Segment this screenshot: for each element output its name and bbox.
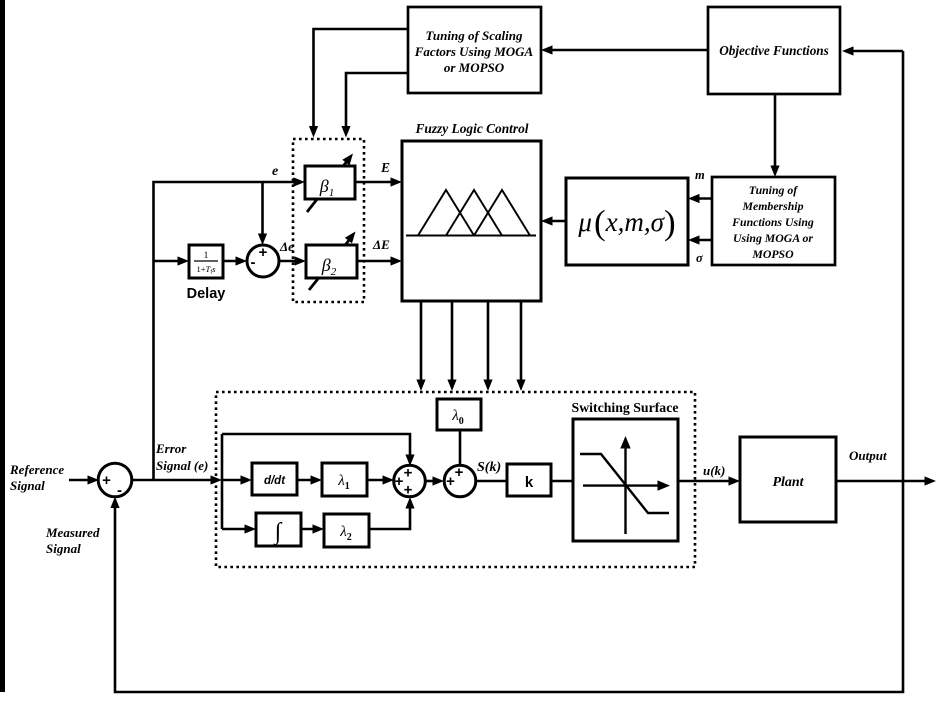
block: beta1 scaling gain [305,166,355,199]
wire: delay to delta summer [223,256,247,265]
summing junction: reference minus measured [98,463,132,499]
svg-text:Signal: Signal [46,541,81,556]
svg-text:Signal: Signal [10,478,45,493]
svg-text:Output: Output [849,448,887,463]
wire: controller input junction vertical [221,434,224,529]
block: integrator [256,513,301,546]
wire: reference signal input [69,475,99,484]
svg-text:+: + [395,473,404,490]
wire: k to switching surface [551,480,573,483]
wire: lambda0 into summer B [459,430,462,466]
svg-text:Error: Error [155,441,187,456]
svg-text:Measured: Measured [45,525,100,540]
svg-text:Signal (e): Signal (e) [156,458,208,473]
summing junction: sliding surface summer [394,465,426,499]
wire: scaling factor output 1 to beta1 [309,29,408,138]
wire: mu block to fuzzy logic control [541,216,566,225]
wire: e drop to delta summer [258,182,267,245]
block: delay 1/(1+Tfs) [189,245,223,278]
wire: proportional path to summer top [222,434,415,466]
svg-text:1+Tfs: 1+Tfs [196,264,216,276]
wire: delta-e to beta2 [279,256,306,265]
svg-text:+: + [404,482,413,499]
dotted box: scaling factors beta group [293,139,364,302]
svg-text:m: m [695,168,705,182]
block: Tuning of Scaling Factors Using MOGA or MOPSO [408,7,541,93]
block: lambda0 gain [437,399,481,430]
svg-text:Functions Using: Functions Using [731,215,814,229]
svg-text:S(k): S(k) [477,460,501,475]
wire: integrator to lambda2 [301,524,324,533]
block: lambda2 gain [324,514,369,547]
wire: m parameter into mu block [688,194,712,203]
svg-text:1: 1 [204,251,209,261]
wire: delta-E from beta2 to fuzzy [357,256,402,265]
svg-text:Tuning of Scaling: Tuning of Scaling [425,28,523,43]
dotted box: sliding mode controller [216,392,695,567]
adjust arrow on beta2 [309,232,356,291]
svg-text:Plant: Plant [772,475,804,490]
svg-text:+: + [404,465,413,482]
svg-text:E: E [380,160,390,175]
wire: E from beta1 to fuzzy [355,177,402,186]
svg-text:+: + [102,472,111,489]
wire: fuzzy output 4 into sliding controller [516,301,525,391]
wire: error signal into controller [131,475,252,484]
wire: summer A to summer B [425,476,444,485]
svg-text:ΔE: ΔE [372,237,390,252]
wire: output feedback vertical right side and bottom return [110,51,903,692]
wire: lambda2 to summer bottom [369,497,415,529]
svg-text:+: + [259,244,268,261]
block: Plant [740,437,836,522]
wire: feedback into objective functions [842,46,903,55]
wire: lambda1 to summer [367,475,394,484]
wire: fuzzy output 2 into sliding controller [447,301,456,391]
block: k gain [507,464,551,496]
svg-text:Membership: Membership [742,199,804,213]
wire: objective functions to scaling tuner [541,45,708,54]
svg-text:Switching Surface: Switching Surface [572,400,679,415]
wire: S(k) to k gain [476,480,507,483]
svg-text:Reference: Reference [9,462,64,477]
wire: d/dt to lambda1 [297,475,322,484]
svg-text:+: + [446,473,455,490]
wire: e branch up and into beta1 [154,177,306,480]
svg-text:e: e [272,164,278,179]
svg-text:Delay: Delay [187,286,226,302]
block: Fuzzy Logic Control with membership triangles [402,141,541,301]
wire: branch into delay [154,256,190,265]
block: d/dt differentiator [252,463,297,495]
svg-text:Δe: Δe [279,239,294,254]
svg-text:d/dt: d/dt [264,475,286,487]
svg-text:Tuning of: Tuning of [749,183,798,197]
svg-text:Using MOGA or: Using MOGA or [733,231,813,245]
svg-text:∫: ∫ [273,519,283,546]
block: Tuning of Membership Functions Using MOGA or MOPSO [712,177,835,265]
wire: objective functions to membership tuner [770,94,779,177]
wire: sigma parameter into mu block [688,235,712,244]
block: beta2 scaling gain [306,245,357,278]
svg-text:MOPSO: MOPSO [751,247,794,261]
svg-text:Objective Functions: Objective Functions [719,43,829,58]
svg-text:k: k [525,474,534,491]
wire: fuzzy output 3 into sliding controller [483,301,492,391]
adjust arrow on beta1 [307,154,353,213]
wire: output line [836,476,936,485]
block: Objective Functions [708,7,840,94]
scan border bar left edge [0,0,5,692]
summing junction: delta-e summer [247,244,279,277]
svg-text:u(k): u(k) [703,463,725,478]
svg-text:-: - [117,482,122,499]
svg-text:+: + [455,464,464,481]
block: mu(x,m,sigma) membership function [566,178,688,265]
svg-text:Fuzzy Logic Control: Fuzzy Logic Control [414,121,528,136]
wire: fuzzy output 1 into sliding controller [416,301,425,391]
svg-text:-: - [251,254,256,271]
wire: u(k) to plant [678,476,740,485]
block: lambda1 gain [322,463,367,496]
block: switching surface with saturation curve and axes [573,419,678,541]
wire: scaling factor output 2 to beta2 [341,73,408,138]
wire: branch into integrator [222,524,256,533]
svg-text:Factors Using MOGA: Factors Using MOGA [414,44,534,59]
summing junction: output summer with lambda0 [444,464,476,497]
svg-text:or MOPSO: or MOPSO [444,60,505,75]
